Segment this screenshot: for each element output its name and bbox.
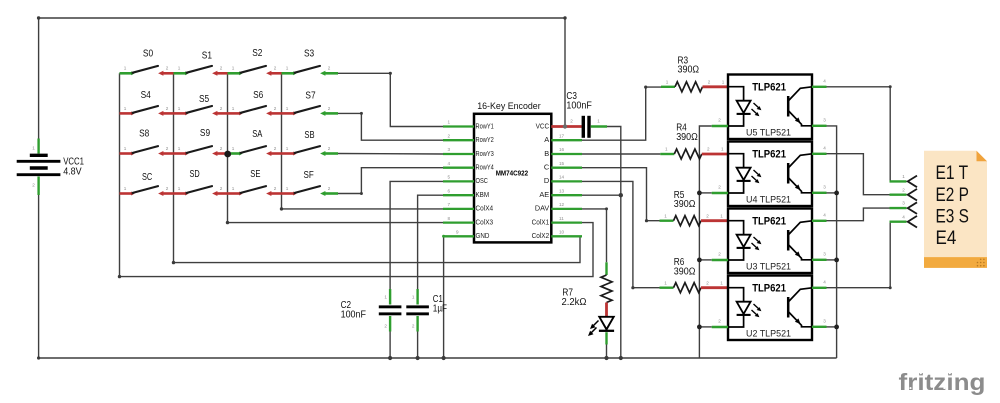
switch SC	[120, 186, 174, 196]
resistor R4	[660, 147, 728, 159]
resistor R3	[661, 79, 728, 91]
wire LED to ground rail	[606, 345, 608, 359]
svg-text:390Ω: 390Ω	[674, 199, 696, 210]
svg-text:1: 1	[665, 147, 668, 152]
wire battery positive to top rail	[38, 18, 40, 139]
svg-text:C: C	[544, 163, 550, 172]
svg-text:2: 2	[448, 133, 451, 138]
junction U2 pin4 bend	[889, 286, 892, 289]
svg-text:13: 13	[559, 188, 565, 193]
wire U3 pin 3 stub	[827, 259, 837, 261]
junction C-R5 bend	[645, 219, 648, 222]
svg-text:1: 1	[232, 106, 235, 111]
svg-text:100nF: 100nF	[566, 101, 591, 112]
svg-text:2: 2	[706, 213, 709, 218]
svg-text:ColX1: ColX1	[532, 217, 550, 226]
connector pin 1	[890, 174, 918, 187]
junction ground rail at GND pin	[442, 356, 446, 360]
wire A pin 17 to R3	[582, 87, 661, 140]
junction A-R3 bend	[644, 86, 647, 89]
junction ground rail at LED	[604, 356, 608, 360]
svg-text:2: 2	[718, 252, 721, 257]
svg-text:8: 8	[448, 216, 451, 221]
svg-text:TLP621: TLP621	[752, 81, 786, 93]
wire C pin 15 to R5	[582, 168, 660, 221]
svg-text:2: 2	[328, 186, 331, 191]
wire battery negative to ground rail	[38, 195, 40, 358]
svg-text:E2 P: E2 P	[936, 185, 969, 206]
svg-text:2: 2	[274, 66, 277, 71]
note E1 T / E2 P / E3 S / E4	[924, 151, 987, 268]
wire column 3 to ColX3 pin 8	[228, 222, 444, 224]
wire C1 to ground rail	[417, 332, 419, 359]
svg-text:1: 1	[124, 66, 127, 71]
svg-text:1: 1	[412, 295, 415, 300]
svg-text:1: 1	[232, 66, 235, 71]
svg-text:1: 1	[902, 174, 905, 179]
junction column4 bend	[280, 207, 283, 210]
svg-text:2: 2	[328, 66, 331, 71]
svg-text:VCC: VCC	[536, 121, 550, 130]
switch S9	[174, 146, 228, 156]
svg-text:ColX4: ColX4	[476, 204, 494, 213]
svg-text:KBM: KBM	[476, 190, 490, 199]
svg-text:3: 3	[823, 319, 826, 324]
wire AE pin 13	[580, 194, 621, 196]
wire row 3 (SB) to RowY3	[338, 153, 444, 156]
switch S3	[282, 66, 339, 76]
svg-text:1: 1	[721, 147, 724, 152]
label R6 390Ω	[674, 257, 696, 277]
wire U3 pin 2 stub	[699, 259, 711, 261]
svg-text:1: 1	[178, 146, 181, 151]
resistor R5	[660, 213, 729, 225]
svg-text:1: 1	[664, 213, 667, 218]
junction bottom-left corner	[37, 356, 40, 359]
svg-text:1: 1	[448, 120, 451, 125]
junction pin3 bus at U3	[834, 258, 839, 263]
svg-text:4.8V: 4.8V	[63, 166, 82, 177]
svg-text:100nF: 100nF	[341, 309, 366, 320]
connector pin 4	[890, 214, 918, 227]
resistor R6	[660, 280, 729, 292]
junction U5 pin4 bend	[889, 85, 892, 88]
junction column1 bend	[118, 275, 121, 278]
svg-text:2: 2	[166, 106, 169, 111]
svg-text:2: 2	[32, 183, 35, 188]
svg-text:1: 1	[286, 186, 289, 191]
wire matrix column 4 vertical	[281, 73, 283, 209]
switch S1	[174, 66, 228, 76]
svg-text:2: 2	[718, 118, 721, 123]
capacitor C3	[570, 116, 607, 138]
svg-text:10: 10	[559, 230, 565, 235]
svg-text:1: 1	[178, 66, 181, 71]
svg-text:1: 1	[232, 146, 235, 151]
svg-text:S7: S7	[305, 91, 315, 102]
wire column 4 to ColX4 pin 7	[282, 208, 444, 210]
svg-text:1: 1	[666, 79, 669, 84]
svg-text:16-Key Encoder: 16-Key Encoder	[477, 101, 541, 111]
fritzing watermark	[899, 369, 986, 395]
svg-text:U4 TLP521: U4 TLP521	[746, 194, 791, 204]
svg-text:2: 2	[166, 146, 169, 151]
svg-text:RowY3: RowY3	[476, 149, 494, 158]
svg-text:9: 9	[456, 230, 459, 235]
svg-text:4: 4	[823, 280, 826, 285]
svg-text:A: A	[544, 135, 549, 144]
svg-text:SA: SA	[252, 129, 263, 140]
svg-text:3: 3	[823, 118, 826, 123]
wire row 2 (S7) to RowY2	[338, 113, 444, 140]
wire optocoupler pin-2 bus to ground rail	[699, 126, 711, 358]
wire matrix column 1 vertical	[119, 73, 121, 276]
switch S4	[120, 106, 174, 116]
wire KBM to C1	[418, 195, 443, 289]
svg-text:SD: SD	[190, 169, 200, 180]
svg-text:S0: S0	[143, 49, 154, 60]
svg-text:DAV: DAV	[535, 204, 549, 213]
svg-text:2: 2	[166, 186, 169, 191]
svg-text:7: 7	[448, 202, 451, 207]
svg-text:2: 2	[902, 187, 905, 192]
switch S6	[228, 106, 282, 116]
junction row4 bend	[360, 192, 363, 195]
switch SE	[228, 186, 282, 196]
svg-text:390Ω: 390Ω	[676, 132, 698, 143]
svg-text:2: 2	[220, 106, 223, 111]
svg-text:1: 1	[722, 79, 725, 84]
svg-text:2: 2	[220, 66, 223, 71]
junction row1 bend	[389, 72, 392, 75]
wire U4 pin 3 stub	[827, 192, 837, 194]
svg-text:U3 TLP521: U3 TLP521	[746, 261, 791, 271]
junction ground rail at AE line	[619, 356, 623, 360]
svg-text:2: 2	[220, 186, 223, 191]
wire ground bottom rail	[39, 357, 837, 359]
svg-text:S1: S1	[202, 51, 213, 62]
svg-text:S2: S2	[252, 48, 262, 59]
svg-text:RowY2: RowY2	[476, 135, 494, 144]
junction column2 bend	[172, 261, 175, 264]
wire GND pin 9 to ground rail	[442, 235, 445, 358]
svg-text:12: 12	[559, 202, 565, 207]
svg-text:MM74C922: MM74C922	[496, 168, 528, 177]
switch S0	[120, 66, 174, 76]
junction D-R6 bend	[631, 286, 634, 289]
wire OSC to C2	[390, 181, 443, 289]
svg-text:390Ω: 390Ω	[674, 266, 696, 277]
svg-text:2: 2	[274, 146, 277, 151]
wire U5 pin 4 to connector pin 1	[827, 87, 891, 182]
svg-text:TLP621: TLP621	[752, 148, 786, 160]
svg-text:4: 4	[823, 146, 826, 151]
label R4 390Ω	[676, 123, 698, 143]
junction pin3 bus at U2	[834, 325, 839, 330]
svg-text:ColX2: ColX2	[532, 231, 550, 240]
svg-text:2.2kΩ: 2.2kΩ	[562, 297, 587, 308]
junction ground rail at C1	[416, 356, 420, 360]
switch SA	[228, 146, 282, 156]
wire C2 to ground rail	[389, 332, 391, 359]
svg-text:390Ω: 390Ω	[678, 65, 700, 76]
label C2 100nF	[341, 300, 366, 320]
switch S8	[120, 146, 174, 156]
svg-text:SE: SE	[250, 169, 261, 180]
svg-text:4: 4	[448, 161, 451, 166]
wire U2 pin 4 to connector pin 4	[827, 222, 891, 288]
svg-text:S3: S3	[304, 49, 315, 60]
junction pin2 bus at U3	[697, 258, 702, 263]
svg-text:16: 16	[559, 147, 565, 152]
svg-text:RowY4: RowY4	[476, 163, 494, 172]
svg-text:2: 2	[708, 79, 711, 84]
connector pin 2	[890, 187, 918, 200]
wire U4 pin 2 stub	[699, 192, 711, 194]
wire B pin 16 to R4	[582, 153, 660, 155]
switch SB	[282, 146, 339, 156]
svg-text:U5 TLP521: U5 TLP521	[746, 127, 791, 137]
svg-text:1: 1	[178, 106, 181, 111]
svg-text:2: 2	[328, 106, 331, 111]
svg-text:3: 3	[823, 185, 826, 190]
label C3 100nF	[566, 91, 591, 111]
svg-text:SC: SC	[142, 172, 152, 183]
switch S5	[174, 106, 228, 116]
wire matrix column 3 vertical	[227, 73, 229, 222]
junction pin2 bus at U2	[697, 325, 702, 330]
svg-text:D: D	[544, 176, 549, 185]
IC U1 MM74C922 16-Key Encoder	[443, 114, 582, 243]
svg-text:1: 1	[286, 146, 289, 151]
capacitor C1	[406, 289, 429, 332]
svg-text:2: 2	[328, 146, 331, 151]
switch SD	[174, 186, 228, 196]
svg-text:ColX3: ColX3	[476, 217, 494, 226]
LED D1	[588, 303, 614, 345]
svg-text:GND: GND	[476, 231, 490, 240]
junction top rail corner	[563, 16, 566, 19]
svg-text:2: 2	[570, 119, 573, 124]
wire DAV pin 12 to R7	[580, 209, 607, 262]
svg-text:RowY1: RowY1	[476, 121, 494, 130]
switch S2	[228, 66, 282, 76]
wire optocoupler pin-3 bus to ground rail	[827, 126, 837, 358]
label C1 1µF	[433, 294, 447, 314]
wire C3 to AE and ground rail	[607, 127, 621, 359]
junction pin3 bus at U4	[834, 191, 839, 196]
junction row2 bend	[360, 112, 363, 115]
svg-text:SB: SB	[304, 130, 315, 141]
wire VCC rail drop to C3/VCC	[564, 18, 566, 127]
resistor R7	[601, 262, 612, 302]
svg-text:2: 2	[274, 106, 277, 111]
svg-text:4: 4	[902, 214, 905, 219]
svg-text:3: 3	[902, 201, 905, 206]
wire VCC top rail	[39, 17, 565, 19]
svg-text:1: 1	[384, 295, 387, 300]
svg-text:4: 4	[823, 213, 826, 218]
svg-text:2: 2	[412, 324, 415, 329]
node column3/row3 junction	[224, 151, 231, 158]
svg-text:OSC: OSC	[476, 176, 489, 185]
svg-text:6: 6	[448, 188, 451, 193]
switch S7	[282, 106, 339, 116]
svg-text:1: 1	[124, 146, 127, 151]
svg-text:TLP621: TLP621	[752, 215, 786, 227]
svg-text:2: 2	[706, 280, 709, 285]
svg-text:11: 11	[559, 216, 564, 221]
svg-text:1: 1	[597, 119, 600, 124]
wire matrix column 2 vertical	[173, 73, 175, 262]
optocoupler U4 TLP621	[712, 142, 827, 207]
wire column 2 to ColX2 pin 10	[174, 236, 581, 262]
svg-text:S8: S8	[139, 129, 150, 140]
svg-text:U2 TLP521: U2 TLP521	[746, 328, 791, 338]
svg-text:1: 1	[286, 106, 289, 111]
svg-text:5: 5	[448, 175, 451, 180]
junction DAV-R7 bend	[605, 207, 608, 210]
connector pin 3	[890, 201, 918, 214]
svg-text:1: 1	[32, 146, 35, 151]
wire row 1 (S3) to RowY1	[338, 73, 444, 126]
wire U2 pin 2 stub	[699, 326, 711, 328]
svg-text:SF: SF	[304, 170, 314, 181]
svg-text:1: 1	[124, 106, 127, 111]
wire column 1 to ColX1 pin 11	[120, 223, 594, 277]
wire U4 pin 4 to connector pin 2	[827, 154, 890, 195]
label R7 2.2kΩ	[562, 288, 587, 308]
svg-text:1: 1	[664, 280, 667, 285]
svg-text:B: B	[544, 149, 549, 158]
svg-text:3: 3	[823, 252, 826, 257]
junction pin2 bus at U4	[697, 191, 702, 196]
svg-text:2: 2	[707, 147, 710, 152]
junction AE / C3 ground line	[619, 193, 623, 197]
svg-text:2: 2	[166, 66, 169, 71]
svg-text:15: 15	[559, 161, 565, 166]
optocoupler U5 TLP621	[712, 75, 827, 140]
svg-text:TLP621: TLP621	[752, 282, 786, 294]
svg-text:1: 1	[720, 280, 723, 285]
svg-text:S9: S9	[200, 128, 211, 139]
label R3 390Ω	[678, 55, 700, 75]
battery VCC1 4.8V	[17, 139, 61, 196]
svg-text:3: 3	[448, 147, 451, 152]
junction top-left corner	[37, 16, 40, 19]
svg-text:1µF: 1µF	[433, 303, 447, 314]
svg-text:S6: S6	[253, 90, 264, 101]
optocoupler U2 TLP621	[712, 276, 827, 341]
svg-text:14: 14	[559, 175, 565, 180]
svg-text:1: 1	[124, 186, 127, 191]
svg-text:1: 1	[178, 186, 181, 191]
capacitor C2	[379, 289, 402, 332]
wire U3 pin 4 to connector pin 3	[827, 208, 890, 221]
svg-text:E4: E4	[936, 228, 957, 249]
optocoupler U3 TLP621	[712, 209, 827, 274]
svg-text:1: 1	[232, 186, 235, 191]
switch SF	[282, 186, 339, 196]
label R5 390Ω	[674, 190, 696, 210]
svg-text:2: 2	[220, 146, 223, 151]
svg-text:S4: S4	[141, 90, 152, 101]
wire U2 pin 3 stub	[827, 326, 837, 328]
junction VCC at C3	[563, 124, 567, 128]
svg-text:2: 2	[718, 185, 721, 190]
svg-text:2: 2	[384, 324, 387, 329]
svg-text:4: 4	[823, 79, 826, 84]
svg-text:fritzing: fritzing	[899, 369, 986, 395]
junction column3 bend	[226, 221, 229, 224]
svg-text:2: 2	[274, 186, 277, 191]
svg-text:17: 17	[559, 133, 565, 138]
svg-text:S5: S5	[199, 94, 210, 105]
svg-text:AE: AE	[539, 190, 549, 199]
junction ground rail at C2	[388, 356, 392, 360]
label battery VCC1	[63, 156, 84, 177]
svg-text:1: 1	[720, 213, 723, 218]
wire D pin 14 to R6	[582, 181, 660, 287]
svg-text:E3 S: E3 S	[936, 206, 969, 227]
svg-text:2: 2	[718, 319, 721, 324]
svg-text:1: 1	[286, 66, 289, 71]
svg-text:E1 T: E1 T	[936, 163, 969, 184]
wire row 4 (SF) to RowY4	[338, 168, 444, 194]
